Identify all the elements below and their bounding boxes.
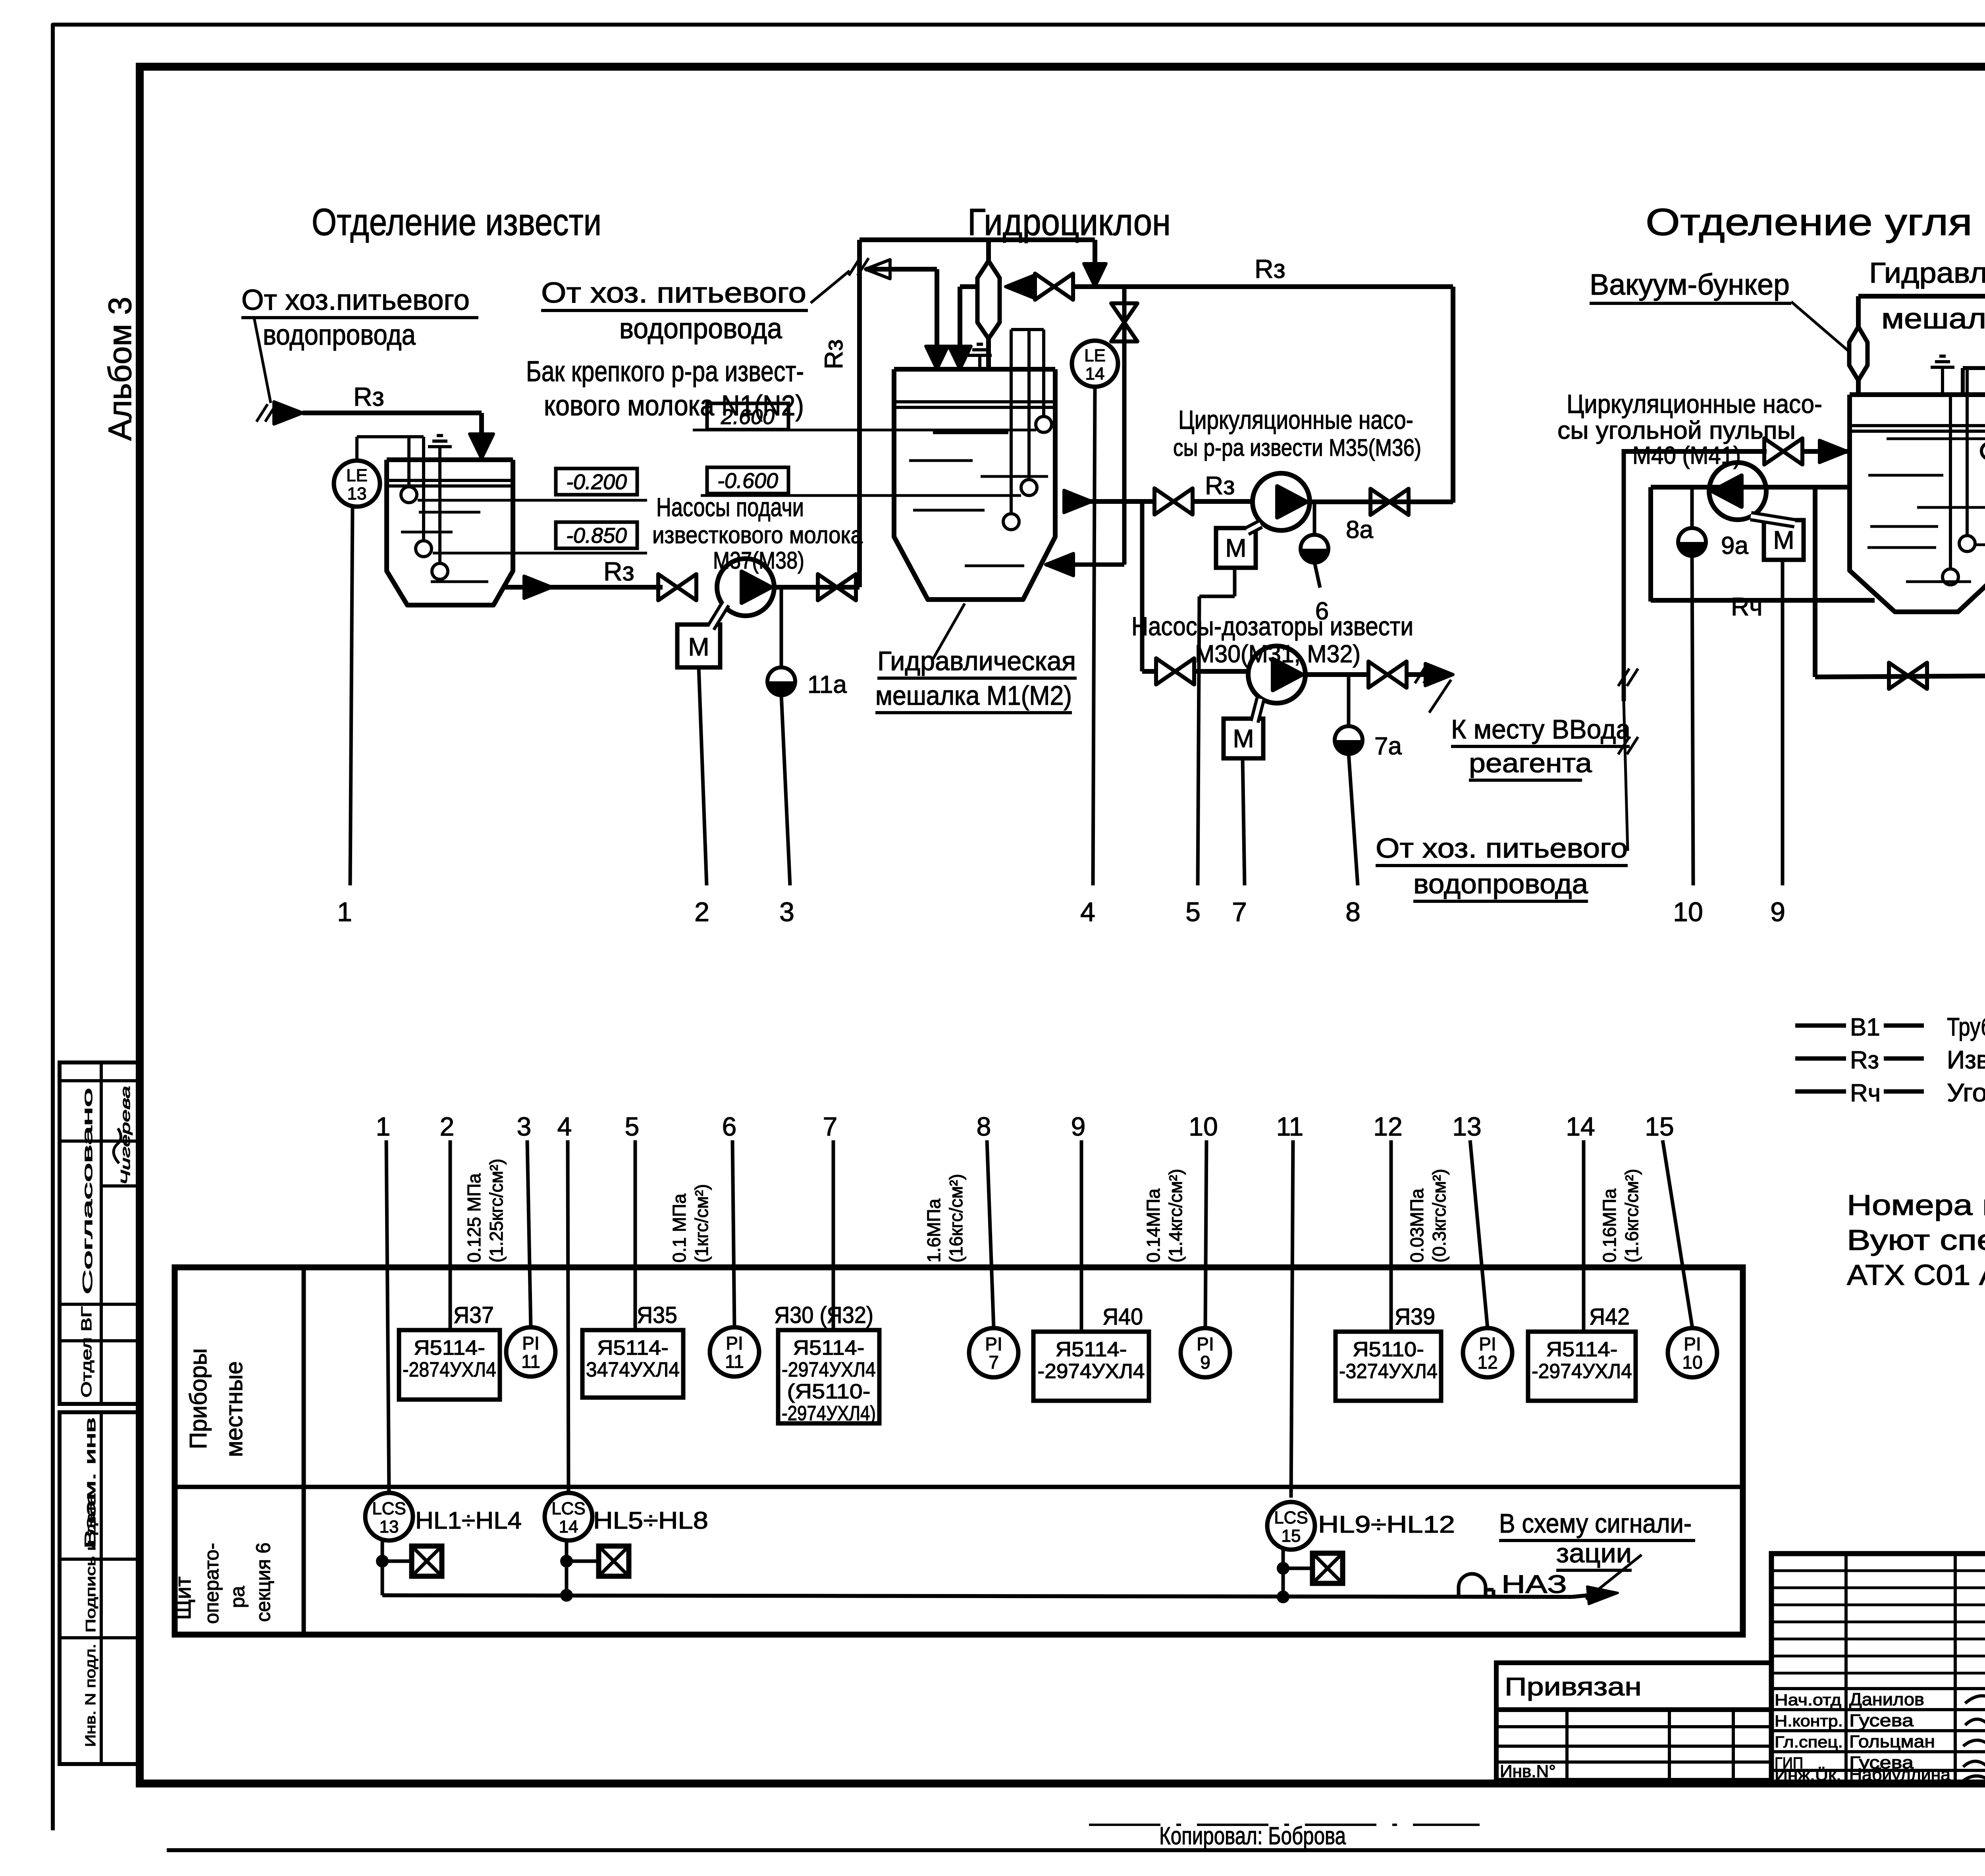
svg-text:Я5110-: Я5110-	[1353, 1338, 1424, 1361]
svg-text:13: 13	[347, 484, 367, 503]
discharge with valve	[1305, 672, 1370, 677]
svg-text:8а: 8а	[1346, 516, 1373, 544]
svg-text:(1кгс/см²): (1кгс/см²)	[691, 1184, 712, 1263]
svg-text:5: 5	[1185, 897, 1201, 927]
svg-text:Трубопровод хоз. питьевого вод: Трубопровод хоз. питьевого водопровода	[1947, 1012, 1985, 1041]
svg-text:2.600: 2.600	[721, 405, 775, 429]
svg-text:11а: 11а	[807, 671, 847, 698]
pipe: R3 recirculation header	[1006, 276, 1033, 298]
svg-text:PI: PI	[1197, 1334, 1214, 1354]
svg-text:4: 4	[1080, 897, 1095, 927]
instrument LE13	[334, 461, 380, 507]
svg-text:Я39: Я39	[1395, 1304, 1435, 1330]
svg-text:2: 2	[440, 1112, 455, 1141]
svg-text:PI: PI	[1479, 1334, 1496, 1354]
svg-text:Я35: Я35	[637, 1302, 677, 1328]
svg-text:Я42: Я42	[1589, 1304, 1630, 1330]
pipe: water feed to mixer tank	[849, 258, 860, 276]
svg-text:0.03МПа: 0.03МПа	[1407, 1188, 1427, 1263]
svg-text:7: 7	[1232, 897, 1247, 927]
svg-text:Rз: Rз	[1205, 471, 1235, 500]
svg-text:HL5÷HL8: HL5÷HL8	[593, 1507, 708, 1534]
svg-text:Гольцман: Гольцман	[1849, 1732, 1935, 1751]
top pipes over tank	[1963, 366, 1985, 370]
svg-text:Н.контр.: Н.контр.	[1775, 1712, 1843, 1730]
svg-text:1.6МПа: 1.6МПа	[923, 1199, 944, 1263]
svg-text:Rз: Rз	[1850, 1047, 1879, 1074]
svg-text:зации: зации	[1556, 1538, 1632, 1568]
svg-text:9а: 9а	[1721, 532, 1748, 559]
svg-text:PI: PI	[1684, 1334, 1701, 1354]
gauge ball 7a	[1347, 675, 1351, 727]
svg-text:2: 2	[694, 897, 709, 927]
svg-text:12: 12	[1373, 1112, 1402, 1141]
svg-text:Вуют спецификации оборудования: Вуют спецификации оборудования	[1847, 1224, 1985, 1256]
svg-text:Отделение извести: Отделение извести	[312, 201, 601, 243]
svg-text:Нач.отд: Нач.отд	[1775, 1691, 1841, 1709]
svg-text:Я40: Я40	[1102, 1304, 1143, 1330]
svg-text:12: 12	[1477, 1352, 1497, 1373]
svg-text:Отделение угля: Отделение угля	[1646, 201, 1972, 243]
svg-text:реагента: реагента	[1469, 748, 1592, 778]
svg-text:Гусева: Гусева	[1849, 1711, 1914, 1730]
svg-text:9: 9	[1200, 1352, 1210, 1373]
short line 6	[1314, 562, 1320, 588]
svg-text:0.16МПа: 0.16МПа	[1599, 1188, 1620, 1263]
svg-text:PI: PI	[726, 1333, 743, 1353]
svg-text:14: 14	[559, 1517, 578, 1537]
svg-text:М: М	[1773, 526, 1794, 554]
svg-text:0.125 МПа: 0.125 МПа	[464, 1173, 484, 1263]
svg-text:7: 7	[823, 1112, 838, 1141]
svg-text:М: М	[688, 632, 709, 661]
svg-text:секция 6: секция 6	[252, 1542, 274, 1622]
coal mixer tank	[1850, 395, 1985, 612]
svg-text:водопровода: водопровода	[1413, 868, 1588, 899]
valve vertical on drop	[1122, 287, 1127, 565]
svg-text:От хоз.питьевого: От хоз.питьевого	[241, 284, 470, 316]
svg-text:14: 14	[1085, 364, 1105, 384]
pipe: mixer outlet header	[1064, 490, 1092, 513]
pipe: feed R3 into tank N1	[256, 404, 268, 422]
svg-text:11: 11	[1276, 1112, 1304, 1141]
svg-text:3: 3	[779, 897, 794, 927]
LCS13	[365, 1493, 413, 1541]
svg-text:8: 8	[977, 1112, 991, 1141]
svg-text:3: 3	[517, 1112, 532, 1141]
instrument boxes	[399, 1330, 500, 1400]
PI circles	[506, 1327, 555, 1377]
svg-text:14: 14	[1566, 1112, 1595, 1141]
svg-text:ра: ра	[226, 1586, 249, 1608]
motor M box of M37	[677, 625, 720, 667]
svg-text:Я5114-: Я5114-	[1056, 1338, 1127, 1361]
svg-text:(0.3кгс/см²): (0.3кгс/см²)	[1429, 1169, 1449, 1263]
svg-text:LCS: LCS	[551, 1499, 586, 1518]
svg-text:М: М	[1233, 724, 1254, 753]
grounding	[1931, 366, 1954, 369]
pipe: cyclone feed branch	[960, 284, 977, 289]
svg-text:Rч: Rч	[1731, 592, 1763, 621]
svg-text:(16кгс/см²): (16кгс/см²)	[946, 1174, 966, 1263]
svg-text:13: 13	[1452, 1112, 1481, 1141]
svg-text:11: 11	[521, 1351, 540, 1372]
svg-text:Инв.N°: Инв.N°	[1500, 1762, 1556, 1781]
svg-text:10: 10	[1682, 1352, 1702, 1373]
svg-text:Гидроциклон: Гидроциклон	[967, 201, 1171, 243]
svg-text:Rз: Rз	[603, 557, 634, 586]
LCS15	[1267, 1502, 1315, 1550]
svg-text:-2974УХЛ4: -2974УХЛ4	[1532, 1360, 1632, 1383]
motor M box of M30	[1224, 719, 1263, 758]
svg-text:(1.4кгс/см²): (1.4кгс/см²)	[1165, 1169, 1186, 1263]
svg-text:Копировал: Боброва: Копировал: Боброва	[1159, 1822, 1346, 1850]
valve	[818, 574, 856, 600]
pump M37	[717, 559, 774, 616]
instrument LE14	[1072, 341, 1118, 387]
svg-text:0.14МПа: 0.14МПа	[1143, 1188, 1164, 1263]
svg-text:LE: LE	[346, 466, 368, 485]
svg-text:-2874УХЛ4: -2874УХЛ4	[403, 1358, 496, 1381]
svg-text:-2974УХЛ4: -2974УХЛ4	[1038, 1360, 1145, 1383]
svg-text:Подпись и дата: Подпись и дата	[83, 1494, 98, 1633]
svg-text:Инв. N подл.: Инв. N подл.	[82, 1644, 98, 1747]
pipe: cyclone underflow to tank	[986, 339, 991, 368]
gauge ball 9a	[1678, 542, 1706, 556]
svg-text:11: 11	[725, 1351, 744, 1372]
left stamp strip upper	[60, 1062, 140, 1404]
svg-text:Альбом 3: Альбом 3	[102, 297, 138, 441]
hydrocyclone vessel	[986, 240, 991, 261]
motor M box of M35	[1216, 528, 1256, 568]
svg-text:Угольная пульпа: Угольная пульпа	[1947, 1078, 1985, 1107]
svg-text:Насосы-дозаторы извести: Насосы-дозаторы извести	[1131, 611, 1413, 641]
tank: hydraulic mixer M1	[894, 369, 1055, 600]
level 2.600	[707, 403, 788, 430]
legend B1	[1795, 1024, 1846, 1028]
svg-text:В1: В1	[1850, 1014, 1880, 1041]
svg-text:Я5114-: Я5114-	[597, 1336, 669, 1359]
title block small grid	[1496, 1710, 1771, 1780]
pipe: branch down to M30	[1140, 501, 1145, 671]
svg-text:HL1÷HL4: HL1÷HL4	[415, 1507, 522, 1534]
svg-text:1: 1	[337, 897, 352, 927]
svg-text:Привязан: Привязан	[1505, 1672, 1642, 1701]
svg-text:Rз: Rз	[353, 382, 384, 411]
NAZ symbol	[1459, 1574, 1486, 1596]
signal line 10	[1692, 556, 1693, 885]
discharge to loop	[1310, 499, 1453, 504]
svg-text:Бак крепкого р-ра извест-: Бак крепкого р-ра извест-	[526, 356, 804, 388]
level -0.600	[707, 467, 788, 494]
left stamp strip lower	[60, 1412, 140, 1764]
signature table	[1771, 1554, 1985, 1783]
svg-text:15: 15	[1282, 1526, 1301, 1546]
svg-text:PI: PI	[985, 1334, 1002, 1354]
signal line 3 from ball 11a	[781, 695, 790, 885]
signal line 7	[1243, 758, 1245, 885]
fold line	[1089, 1824, 1480, 1826]
leader diagonal	[811, 271, 850, 303]
electrode rods	[1042, 330, 1045, 418]
signal line 5	[1198, 596, 1199, 885]
svg-text:(1.6кгс/см²): (1.6кгс/см²)	[1621, 1169, 1642, 1263]
svg-text:Инж.Üк.: Инж.Üк.	[1775, 1766, 1841, 1784]
svg-text:(1.25кгс/см²): (1.25кгс/см²)	[486, 1159, 507, 1263]
svg-text:LCS: LCS	[372, 1499, 406, 1518]
electrode rods in tank	[407, 437, 410, 488]
svg-text:0.1 МПа: 0.1 МПа	[669, 1193, 690, 1263]
wire: leader to feed arrow	[254, 318, 271, 403]
svg-text:К месту ВВода: К месту ВВода	[1451, 714, 1630, 744]
pipe: top header to hydrocyclone loop	[860, 237, 1095, 242]
svg-text:1: 1	[376, 1112, 391, 1141]
signal line 4	[1093, 387, 1095, 885]
instrument table frame	[175, 1267, 1743, 1635]
legend R4	[1795, 1089, 1846, 1094]
svg-text:Циркуляционные насо-: Циркуляционные насо-	[1567, 389, 1822, 418]
svg-text:PI: PI	[522, 1333, 539, 1353]
svg-text:От хоз. питьевого: От хоз. питьевого	[1376, 833, 1628, 864]
valve	[658, 574, 696, 600]
svg-text:Я5114-: Я5114-	[793, 1336, 865, 1359]
signal bus to alarm	[382, 1595, 1572, 1597]
svg-text:сы р-ра извести М35(М36): сы р-ра извести М35(М36)	[1173, 434, 1421, 461]
svg-text:сы угольной пульпы: сы угольной пульпы	[1557, 417, 1796, 444]
LCS14	[545, 1493, 592, 1541]
svg-text:-0.850: -0.850	[566, 524, 627, 548]
svg-text:Гидравлическая: Гидравлическая	[1869, 257, 1985, 289]
svg-text:7а: 7а	[1374, 733, 1402, 760]
svg-text:6: 6	[722, 1112, 737, 1141]
svg-text:-0.600: -0.600	[717, 469, 778, 493]
svg-text:Гидравлическая: Гидравлическая	[877, 646, 1076, 676]
pipe: R3 riser from M37 discharge	[857, 240, 862, 587]
svg-text:мешалка М1(М2): мешалка М1(М2)	[875, 681, 1072, 711]
svg-text:Rч: Rч	[1850, 1080, 1881, 1107]
pipe: vacuum line to pumps M39	[1858, 294, 1985, 299]
svg-text:Вакуум-бункер: Вакуум-бункер	[1590, 268, 1790, 301]
gauge ball 8a	[1313, 502, 1316, 535]
svg-text:Я37: Я37	[453, 1302, 494, 1328]
level mark -0.850	[556, 522, 637, 548]
column drop lines	[386, 1140, 389, 1494]
svg-text:мешалка N1(N2): мешалка N1(N2)	[1881, 303, 1985, 335]
svg-text:4: 4	[557, 1112, 572, 1141]
svg-text:Набиуллина: Набиуллина	[1849, 1765, 1951, 1784]
svg-text:Щит: Щит	[170, 1577, 195, 1620]
svg-text:10: 10	[1189, 1112, 1218, 1141]
svg-text:10: 10	[1673, 897, 1703, 927]
pipe: tank outlet to pump M37	[503, 585, 663, 590]
svg-text:водопровода: водопровода	[263, 319, 416, 351]
svg-text:В схему сигнали-: В схему сигнали-	[1499, 1508, 1692, 1539]
grounding	[968, 354, 992, 357]
svg-text:Rз: Rз	[819, 339, 848, 369]
pipe: water feed from khoz line	[1622, 449, 1626, 701]
svg-text:водопровода: водопровода	[619, 313, 782, 345]
leader to water line	[1624, 701, 1628, 851]
svg-text:LCS: LCS	[1274, 1508, 1308, 1527]
signal line 9	[1781, 560, 1785, 885]
svg-text:Номера позиций приборов соотве: Номера позиций приборов соответст-	[1847, 1190, 1985, 1221]
svg-text:5: 5	[625, 1112, 640, 1141]
svg-text:Согласовано: Согласовано	[80, 1088, 95, 1294]
svg-text:3474УХЛ4: 3474УХЛ4	[586, 1358, 680, 1381]
signatures scribbles	[1965, 1692, 1985, 1706]
svg-text:-2974УХЛ4: -2974УХЛ4	[782, 1358, 876, 1381]
signal line 8	[1349, 754, 1358, 885]
svg-text:Циркуляционные насо-: Циркуляционные насо-	[1178, 405, 1413, 434]
svg-text:Отдел ВГ: Отдел ВГ	[78, 1306, 94, 1398]
svg-text:-0.200: -0.200	[566, 470, 627, 494]
gauge ball 11a	[780, 587, 783, 668]
svg-text:LE: LE	[1084, 346, 1106, 365]
return arrow into mixer tank	[1046, 553, 1073, 576]
svg-text:Приборы: Приборы	[185, 1348, 212, 1449]
svg-text:9: 9	[1071, 1112, 1086, 1141]
svg-text:М: М	[1225, 534, 1246, 562]
signal line 2 from M box	[699, 667, 707, 885]
svg-text:15: 15	[1645, 1112, 1674, 1141]
svg-text:9: 9	[1770, 897, 1785, 927]
svg-text:АТХ С01 Альбом 5: АТХ С01 Альбом 5	[1847, 1259, 1985, 1291]
svg-text:8: 8	[1345, 897, 1361, 927]
svg-text:известкового молока: известкового молока	[652, 522, 863, 548]
svg-text:Я5114-: Я5114-	[1546, 1338, 1618, 1361]
svg-text:НАЗ: НАЗ	[1501, 1570, 1567, 1598]
motor M box of M40	[1764, 520, 1804, 560]
svg-text:HL9÷HL12: HL9÷HL12	[1318, 1511, 1455, 1538]
svg-text:Гл.спец.: Гл.спец.	[1775, 1733, 1843, 1751]
svg-text:(Я5110-: (Я5110-	[787, 1380, 871, 1403]
svg-text:Я5114-: Я5114-	[414, 1336, 485, 1359]
svg-text:-2974УХЛ4): -2974УХЛ4)	[782, 1402, 876, 1425]
level mark -0.200	[556, 469, 637, 495]
legend R3	[1795, 1057, 1846, 1061]
vacuum bunker capsule	[1849, 327, 1867, 380]
signal line 1 from LE13	[350, 507, 353, 885]
svg-text:От хоз. питьевого: От хоз. питьевого	[541, 277, 806, 309]
svg-text:Известковое молоко: Известковое молоко	[1947, 1045, 1985, 1074]
svg-text:7: 7	[989, 1352, 999, 1373]
pump M30	[1248, 646, 1305, 703]
title block: privyazan box	[1496, 1663, 1771, 1710]
pump M35	[1253, 473, 1310, 530]
svg-text:13: 13	[380, 1517, 399, 1537]
svg-text:Rз: Rз	[1255, 254, 1285, 283]
pump M40 circulation loop	[1651, 485, 1850, 490]
svg-text:-3274УХЛ4: -3274УХЛ4	[1339, 1360, 1438, 1383]
svg-text:Данилов: Данилов	[1849, 1690, 1924, 1709]
svg-text:Я30 (Я32): Я30 (Я32)	[774, 1302, 873, 1328]
pipe to riser	[774, 585, 860, 590]
svg-text:операто-: операто-	[200, 1543, 223, 1624]
svg-text:местные: местные	[221, 1361, 247, 1457]
